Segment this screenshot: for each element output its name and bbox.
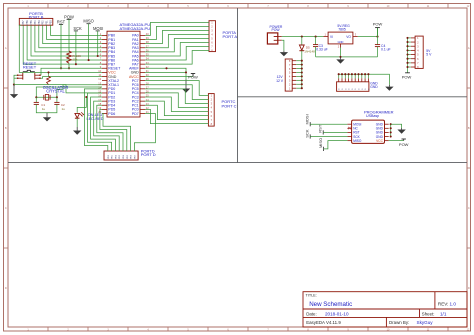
svg-text:MISO: MISO bbox=[353, 139, 362, 143]
svg-text:0.1 uF: 0.1 uF bbox=[381, 48, 391, 52]
svg-text:New Schematic: New Schematic bbox=[309, 301, 352, 308]
wire 5V pin6 stub bbox=[408, 58, 411, 60]
wire PA7 to PORTA pin8 bbox=[145, 51, 209, 65]
svg-text:VI: VI bbox=[330, 35, 333, 39]
wire PORTB pin3 to PB5 bbox=[31, 25, 102, 56]
net flag MISO bbox=[83, 19, 93, 24]
svg-text:C: C bbox=[468, 206, 470, 210]
wire PA0 to PORTA pin1 bbox=[145, 22, 209, 35]
svg-text:TITLE:: TITLE: bbox=[306, 294, 317, 298]
wire ground rail left bbox=[14, 85, 102, 93]
svg-text:USBasp: USBasp bbox=[366, 114, 379, 118]
svg-text:SkyGuy: SkyGuy bbox=[417, 320, 434, 325]
wire PA6 to PORTA pin7 bbox=[145, 47, 209, 61]
wire PD0 to PORTD pin1 bbox=[84, 89, 107, 151]
crystal Y1 OSCILLATOR CRYSTAL bbox=[43, 85, 69, 100]
wire C3 bottom to ground rail bbox=[315, 47, 317, 57]
ground under switch bbox=[13, 85, 15, 95]
power flag POW (programmer) bbox=[399, 139, 409, 147]
net flag SCK (programmer) bbox=[305, 129, 311, 138]
wire PC3 to PORTC pin5 bbox=[145, 97, 208, 112]
svg-text:POW: POW bbox=[399, 142, 409, 147]
connector P_B PORTB header bbox=[19, 11, 53, 25]
wire GND pin4 riser bbox=[348, 74, 350, 78]
svg-text:PORT C: PORT C bbox=[222, 103, 237, 108]
wire switch left to ground bbox=[14, 75, 17, 84]
svg-text:2018-01-10: 2018-01-10 bbox=[325, 311, 349, 316]
capacitor C3 0.33uF bbox=[313, 44, 328, 52]
junction programmer GND1 bbox=[390, 123, 392, 125]
svg-text:MOSI: MOSI bbox=[93, 26, 103, 31]
wire 5V output bbox=[358, 36, 378, 38]
wire LED to PD2 bbox=[77, 97, 86, 113]
wire GND pin9 riser bbox=[364, 74, 366, 78]
svg-text:RESET: RESET bbox=[23, 65, 37, 70]
wire MISO to programmer bbox=[324, 141, 348, 149]
svg-text:POW: POW bbox=[272, 28, 281, 32]
junction MISO/PB6 bbox=[88, 59, 90, 61]
svg-text:10k: 10k bbox=[73, 58, 78, 62]
svg-text:PB7: PB7 bbox=[22, 20, 25, 25]
wire PA2 to PORTA pin3 bbox=[145, 30, 209, 43]
svg-text:SCK: SCK bbox=[305, 129, 310, 138]
power flag POW (5V header) bbox=[402, 73, 412, 80]
wire R1 to RESET net bbox=[68, 63, 70, 68]
svg-text:D: D bbox=[5, 286, 7, 290]
connector P_A PORTA header bbox=[209, 21, 237, 53]
svg-text:1/1: 1/1 bbox=[440, 311, 447, 316]
wire +12V rail bbox=[282, 36, 324, 38]
wire GND pin8 riser bbox=[361, 74, 363, 78]
wire 5V pin2 stub bbox=[408, 41, 411, 43]
svg-text:Drawn By:: Drawn By: bbox=[389, 320, 409, 325]
svg-text:1.0: 1.0 bbox=[450, 301, 457, 306]
wire 12V bus pin6 bbox=[296, 68, 302, 70]
svg-text:12 V: 12 V bbox=[276, 79, 284, 83]
connector J1 POWER input bbox=[267, 25, 282, 44]
wire PORTB pin5 to PB3 bbox=[39, 25, 102, 48]
svg-text:D: D bbox=[468, 286, 470, 290]
svg-text:GND: GND bbox=[338, 40, 344, 44]
wire crystal row bbox=[36, 96, 57, 98]
wire GND pin2 riser bbox=[341, 74, 343, 78]
wire GND pin7 riser bbox=[358, 74, 360, 78]
power flag POW (5V reg) bbox=[373, 22, 383, 37]
svg-text:EasyEDA V4.11.9: EasyEDA V4.11.9 bbox=[306, 320, 341, 325]
svg-text:POW: POW bbox=[402, 75, 412, 80]
svg-text:1N4148: 1N4148 bbox=[304, 50, 315, 54]
svg-text:PORT A: PORT A bbox=[223, 34, 238, 39]
svg-text:MOSI: MOSI bbox=[305, 114, 310, 124]
wire power minus to ground bbox=[282, 40, 284, 50]
wire 12V bus pin2 bbox=[296, 83, 302, 85]
ground programmer bbox=[401, 128, 403, 130]
wire C4 top bbox=[377, 37, 379, 45]
power flag POW (AVCC) bbox=[188, 74, 198, 80]
wire C3 top bbox=[315, 37, 317, 45]
wire 5V pin1 stub bbox=[408, 37, 411, 39]
svg-text:REV:: REV: bbox=[438, 301, 449, 306]
junction programmer GND3 bbox=[390, 131, 392, 133]
junction AREF staircase bbox=[165, 67, 167, 69]
svg-text:C: C bbox=[5, 206, 7, 210]
connector P5V 5V header bbox=[411, 36, 432, 69]
wire PC0 to PORTC pin8 bbox=[145, 109, 208, 123]
wire PC2 to PORTC pin6 bbox=[145, 101, 208, 115]
wire MISO to PB6 bbox=[88, 24, 90, 60]
wire GND pin10 riser bbox=[367, 74, 369, 78]
capacitor C1 1u bbox=[34, 102, 46, 111]
svg-text:B: B bbox=[468, 126, 470, 130]
net flag MISO (programmer) bbox=[318, 138, 324, 151]
wire 12V bus pin5 bbox=[296, 71, 302, 73]
svg-text:VCC: VCC bbox=[376, 139, 383, 143]
wire GND pin6 riser bbox=[354, 74, 356, 78]
wire PORTB pin8 to PB0 bbox=[51, 25, 103, 35]
net flag RST bbox=[57, 19, 66, 24]
power flag POW (pull-up) bbox=[64, 14, 74, 19]
wire SCK to PB7 bbox=[75, 31, 77, 64]
svg-text:POW: POW bbox=[64, 14, 74, 19]
svg-text:B: B bbox=[5, 126, 7, 130]
svg-text:PB5: PB5 bbox=[30, 20, 33, 25]
wire R2 top bbox=[48, 72, 50, 76]
wire PC5 to PORTC pin3 bbox=[145, 89, 208, 104]
svg-text:PB4: PB4 bbox=[34, 20, 37, 25]
junction R2/VCC bbox=[47, 71, 49, 73]
wire PD5 to PORTD pin6 bbox=[100, 109, 127, 151]
junction diode top bbox=[301, 36, 303, 38]
svg-text:RST: RST bbox=[57, 19, 66, 24]
wire PC6 to PORTC pin2 bbox=[145, 85, 208, 100]
svg-text:PD6: PD6 bbox=[108, 112, 115, 116]
ground regulator bbox=[340, 57, 342, 60]
svg-text:PB2: PB2 bbox=[42, 20, 45, 25]
resistor R1 10K pull-up bbox=[67, 51, 81, 63]
wire 12V bus pin3 bbox=[296, 79, 302, 81]
wire RST to RESET pin bbox=[60, 24, 62, 68]
wire AVCC to POW bbox=[145, 76, 193, 78]
svg-text:7805: 7805 bbox=[338, 28, 346, 32]
svg-text:GND: GND bbox=[370, 85, 378, 89]
ground crystal bbox=[46, 113, 48, 118]
wire C4 bottom bbox=[377, 47, 379, 57]
svg-text:SCK: SCK bbox=[73, 26, 82, 31]
svg-text:POW: POW bbox=[373, 22, 383, 27]
junction crystal left bbox=[35, 96, 37, 98]
module U3 PROGRAMMER USBasp bbox=[347, 109, 393, 143]
wire regulator GND bbox=[340, 48, 342, 57]
connector PGND GND header bbox=[337, 78, 379, 91]
svg-text:POW: POW bbox=[188, 75, 198, 80]
wire XTAL1 to crystal bbox=[36, 87, 102, 97]
wire GND pin1 riser bbox=[338, 74, 340, 78]
junction LED/PD2 bbox=[85, 96, 87, 98]
wire crystal ground bbox=[36, 104, 57, 112]
section divider horizontal power/programmer bbox=[238, 96, 468, 98]
svg-text:Date:: Date: bbox=[306, 311, 317, 316]
LED D1 ON-LED LED-RED bbox=[75, 112, 104, 121]
wire C2 top bbox=[56, 97, 58, 102]
ground GND header bbox=[388, 85, 390, 87]
wire 5V pin3 stub bbox=[408, 45, 411, 47]
svg-text:ATMEGA32A-PU: ATMEGA32A-PU bbox=[120, 26, 151, 31]
wire 12V bus pin1 bbox=[296, 87, 302, 89]
wire AREF bbox=[145, 68, 186, 79]
net flag MOSI bbox=[93, 26, 103, 31]
wire programmer GND to ground bbox=[391, 124, 402, 128]
junction RST/RESET bbox=[60, 67, 62, 69]
svg-text:VO: VO bbox=[346, 35, 351, 39]
junction R1/RESET bbox=[68, 67, 70, 69]
wire programmer GND bus bbox=[390, 124, 392, 136]
svg-text:PB0: PB0 bbox=[50, 20, 53, 25]
svg-text:1u: 1u bbox=[62, 107, 66, 111]
junction MOSI/PB5 bbox=[97, 55, 99, 57]
ground LED bbox=[76, 127, 78, 131]
junction ground node bbox=[13, 84, 15, 86]
wire ground rail bbox=[316, 56, 378, 58]
wire PORTB pin2 to PB6 bbox=[27, 25, 102, 60]
wire PC4 to PORTC pin4 bbox=[145, 93, 208, 108]
svg-text:A: A bbox=[468, 46, 470, 50]
junction AREF/GND bbox=[185, 71, 187, 73]
wire 5V bus bbox=[407, 38, 409, 73]
svg-text:PB3: PB3 bbox=[38, 20, 41, 25]
no-connect pin2 bbox=[348, 127, 350, 129]
diode D5 1N4148 bbox=[299, 45, 315, 54]
wire C1 top bbox=[35, 97, 37, 102]
wire switch right lower to GND row bbox=[41, 77, 102, 79]
title block bbox=[303, 292, 467, 327]
svg-text:LED-RED: LED-RED bbox=[86, 116, 103, 121]
wire MOSI to PB5 bbox=[97, 31, 99, 56]
wire RESET net bbox=[41, 68, 102, 75]
junction programmer GND2 bbox=[390, 127, 392, 129]
regulator U2 7805 5V-REG bbox=[323, 24, 357, 48]
svg-text:A: A bbox=[5, 46, 7, 50]
wire PA5 to PORTA pin6 bbox=[145, 43, 209, 56]
IC U1 ATMEGA32A-PU bbox=[98, 22, 150, 117]
junction programmer GND4 bbox=[390, 135, 392, 137]
wire PD2 to PORTD pin3 bbox=[91, 97, 116, 151]
svg-text:PORT B: PORT B bbox=[29, 15, 44, 20]
capacitor C4 0.1uF bbox=[375, 44, 391, 52]
wire MOSI to programmer bbox=[310, 123, 347, 125]
junction C3 top bbox=[315, 36, 317, 38]
wire VCC feeder left bbox=[19, 25, 102, 72]
wire PA4 to PORTA pin5 bbox=[145, 38, 209, 51]
junction 5V node bbox=[376, 36, 378, 38]
svg-text:PB1: PB1 bbox=[46, 20, 49, 25]
net flag RST (programmer) bbox=[318, 124, 324, 134]
junction crystal right bbox=[56, 96, 58, 98]
wire PA1 to PORTA pin2 bbox=[145, 26, 209, 39]
capacitor C2 1u bbox=[54, 102, 65, 111]
connector P_D PORTD header bbox=[104, 148, 156, 160]
svg-text:RST: RST bbox=[318, 124, 323, 133]
wire 5V pin7 stub bbox=[408, 62, 411, 64]
wire PC7 to PORTC pin1 bbox=[145, 81, 208, 96]
svg-text:PB6: PB6 bbox=[26, 20, 29, 25]
wire GND header bus bbox=[339, 74, 390, 85]
wire PORTB pin1 to PB7 bbox=[23, 25, 102, 64]
wire PORTB pin6 to PB2 bbox=[43, 25, 102, 43]
svg-text:CRYSTAL: CRYSTAL bbox=[46, 89, 65, 94]
connector P_C PORTC header bbox=[208, 94, 236, 127]
svg-text:MISO: MISO bbox=[318, 138, 323, 148]
connector P12 12V header bbox=[276, 59, 296, 91]
wire POW to R1 bbox=[68, 19, 70, 51]
ground AREF bbox=[185, 80, 187, 89]
wire PORTB pin4 to PB4 bbox=[35, 25, 102, 52]
net flag MOSI (programmer) bbox=[305, 114, 311, 126]
wire 12V bus pin4 bbox=[296, 75, 302, 77]
svg-text:1u: 1u bbox=[42, 107, 46, 111]
wire PD1 to PORTD pin2 bbox=[88, 93, 112, 151]
wire GND right bbox=[145, 71, 186, 73]
svg-text:0.33 uF: 0.33 uF bbox=[316, 47, 328, 51]
wire 5V pin8 stub bbox=[408, 66, 411, 68]
wire switch lower-left bbox=[14, 77, 17, 79]
ground power input bbox=[283, 51, 285, 53]
wire diode to 12V bus bbox=[301, 51, 303, 88]
svg-text:MISO: MISO bbox=[83, 19, 93, 24]
resistor R2 bbox=[47, 76, 51, 84]
svg-text:PD7: PD7 bbox=[132, 112, 139, 116]
wire 12V bus pin7 bbox=[296, 64, 302, 66]
wire GND pin3 riser bbox=[344, 74, 346, 78]
wire GND pin5 riser bbox=[351, 74, 353, 78]
wire diode top bbox=[301, 37, 303, 45]
junction SCK/PB7 bbox=[75, 63, 77, 65]
svg-text:PORT D: PORT D bbox=[141, 152, 156, 157]
wire PC1 to PORTC pin7 bbox=[145, 105, 208, 119]
wire SCK to programmer bbox=[310, 136, 347, 138]
junction reg ground bbox=[339, 56, 341, 58]
wire LED cathode bbox=[76, 118, 78, 127]
svg-text:5 V: 5 V bbox=[426, 53, 432, 57]
wire 5V pin5 stub bbox=[408, 54, 411, 56]
svg-text:Sheet:: Sheet: bbox=[422, 311, 435, 316]
section divider horizontal full width bbox=[8, 162, 467, 164]
wire 5V pin4 stub bbox=[408, 49, 411, 51]
wire RST to programmer bbox=[323, 131, 347, 133]
switch SW1 RESET pushbutton bbox=[17, 61, 41, 80]
wire PA3 to PORTA pin4 bbox=[145, 34, 209, 47]
wire programmer VCC to POW bbox=[389, 140, 404, 142]
wire XTAL2 to crystal bbox=[57, 85, 102, 98]
net flag SCK bbox=[73, 26, 82, 31]
wire PD4 to PORTD pin5 bbox=[97, 105, 123, 151]
wire PD3 to PORTD pin4 bbox=[94, 101, 120, 151]
wire 12V bus pin8 bbox=[296, 60, 302, 62]
wire PORTB pin7 to PB1 bbox=[47, 25, 102, 39]
wire PD6 to PORTD pin7 bbox=[102, 113, 131, 151]
section divider vertical bbox=[237, 8, 239, 163]
wire PD7 to PORTD pin8 bbox=[134, 113, 155, 151]
